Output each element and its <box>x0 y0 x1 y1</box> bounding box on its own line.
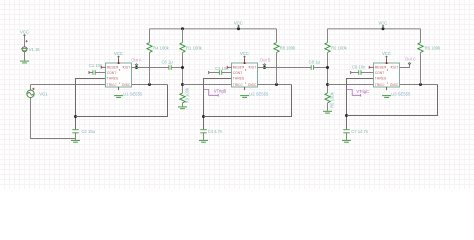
junction R6 bottom <box>419 83 422 86</box>
op-amp U3 SE555 <box>369 51 411 97</box>
pin RESET stub <box>101 66 105 69</box>
probe VTrigC <box>347 89 370 97</box>
wire OUT B row <box>258 67 312 69</box>
wire DISC A row <box>132 84 168 86</box>
wire loop DISC A to C2 <box>76 85 168 117</box>
junction C2 top <box>74 115 77 118</box>
junction C8 right <box>326 66 329 69</box>
svg-text:R6 100k: R6 100k <box>425 45 442 50</box>
capacitor C1 10n <box>89 63 106 75</box>
wire VG1 bottom return <box>31 98 76 139</box>
wire C6 to node B <box>171 67 182 69</box>
wire TRIG C row <box>328 84 374 86</box>
junction R4 bottom <box>148 83 151 86</box>
ground (U2) <box>240 96 249 98</box>
wire node C vertical <box>327 53 329 93</box>
wire <box>24 52 26 61</box>
svg-text:VCC: VCC <box>382 51 391 56</box>
wire TRIG B row <box>183 84 232 86</box>
svg-text:R3 100k: R3 100k <box>184 87 189 104</box>
wire THRES C <box>347 79 374 130</box>
svg-text:U3 SE555: U3 SE555 <box>391 91 411 96</box>
node Out A <box>131 57 142 69</box>
capacitor C8 1u <box>309 59 321 70</box>
resistor R4 100k <box>147 29 170 85</box>
junction C4 top <box>202 115 205 118</box>
resistor R5 100k <box>323 91 334 113</box>
capacitor C9 10n <box>351 65 374 75</box>
svg-text:C9 10n: C9 10n <box>352 65 366 70</box>
ground (C2) <box>71 140 80 142</box>
svg-text:R4 100k: R4 100k <box>153 45 170 50</box>
capacitor C4 4.7n <box>199 129 223 142</box>
junction TRIG C <box>326 83 329 86</box>
svg-text:VCC: VCC <box>234 21 243 26</box>
junction TRIG B <box>181 83 184 86</box>
svg-text:C7 14.7n: C7 14.7n <box>351 129 369 134</box>
capacitor C7 14.7n <box>342 129 369 142</box>
svg-text:VCC: VCC <box>240 51 249 56</box>
op-amp U2 SE555 <box>227 51 269 97</box>
wire loop DISC B to C4 <box>204 85 292 117</box>
svg-text:R5 100k: R5 100k <box>329 91 334 108</box>
generator VG1 symbol <box>27 90 34 97</box>
probe VTrigB <box>204 89 227 97</box>
capacitor C2 15u <box>72 129 78 131</box>
wire DISC B row <box>258 84 292 86</box>
rail VCC 2 <box>328 21 421 31</box>
ground (C4) <box>199 140 208 142</box>
wire VG1 top <box>30 85 32 91</box>
svg-text:VTrigB: VTrigB <box>214 89 227 94</box>
svg-text:VCC: VCC <box>114 51 123 56</box>
junction R8 bottom <box>275 83 278 86</box>
pin RESET stub <box>369 66 373 69</box>
wire THRES A <box>76 79 106 130</box>
power source V1 branch <box>20 30 40 63</box>
ground (R5) <box>323 111 332 113</box>
capacitor C6 1u <box>162 59 174 70</box>
svg-text:Out B: Out B <box>260 57 271 62</box>
resistor R6 100k <box>418 29 441 85</box>
wire OUT A row <box>132 67 169 69</box>
rail VCC 1 <box>150 21 277 31</box>
svg-text:VG1: VG1 <box>39 91 48 96</box>
ground (C7) <box>342 140 351 142</box>
ground (U3) <box>382 96 391 98</box>
svg-text:U1 SE555: U1 SE555 <box>123 91 143 96</box>
svg-text:R1 100k: R1 100k <box>186 45 203 50</box>
resistor R3 100k <box>178 87 189 109</box>
svg-text:Out C: Out C <box>405 56 416 61</box>
svg-text:R2 100k: R2 100k <box>331 45 348 50</box>
resistor R1 100k <box>180 29 203 53</box>
svg-text:C4 4.7n: C4 4.7n <box>208 129 223 134</box>
wire VG1 to TRIG A <box>31 84 106 86</box>
svg-text:VCC: VCC <box>20 30 29 35</box>
svg-text:R8 100k: R8 100k <box>280 45 297 50</box>
node Out C <box>400 56 416 67</box>
svg-text:U2 SE555: U2 SE555 <box>249 91 269 96</box>
junction C6 right <box>181 66 184 69</box>
ground (U1) <box>114 96 123 98</box>
node Out B <box>260 57 271 69</box>
svg-text:C6 1μ: C6 1μ <box>162 59 174 64</box>
wire C8 to node C <box>314 67 328 69</box>
svg-text:VCC: VCC <box>378 21 387 26</box>
pin RESET stub <box>227 66 231 69</box>
svg-text:C8 1μ: C8 1μ <box>309 59 321 64</box>
ground (V1) <box>20 61 29 63</box>
svg-text:V1 15: V1 15 <box>29 47 41 52</box>
wire loop DISC C to C7 <box>347 85 438 116</box>
voltage source V1 <box>25 40 27 42</box>
wire <box>24 38 26 47</box>
resistor R2 100k <box>325 29 348 53</box>
svg-text:Out A: Out A <box>131 57 142 62</box>
wire DISC C row <box>400 84 438 86</box>
ground (R3) <box>178 107 187 109</box>
generator VG1 <box>27 85 106 139</box>
wire node B vertical <box>182 53 184 93</box>
op-amp U1 SE555 <box>101 51 143 97</box>
stage A timing network <box>71 79 168 143</box>
capacitor C3 10n <box>209 66 232 75</box>
wire THRES B <box>204 79 232 130</box>
svg-text:C2 15u: C2 15u <box>82 129 96 134</box>
svg-text:VTrigC: VTrigC <box>356 89 369 94</box>
resistor R8 100k <box>274 29 296 85</box>
junction C7 top <box>345 114 348 117</box>
